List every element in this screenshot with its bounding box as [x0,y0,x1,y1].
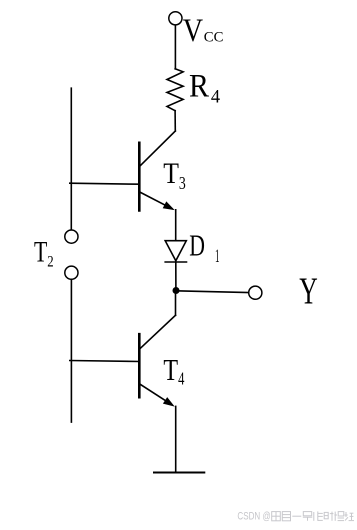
char 一 [292,515,301,517]
T3 base wire [70,183,140,184]
wire resistor to collector bend [174,111,176,131]
transistor T4 bar [138,334,141,397]
svg-text:T: T [163,157,179,190]
Vcc terminal [169,12,182,25]
svg-text:CSDN @: CSDN @ [237,510,270,523]
svg-text:1: 1 [215,246,220,267]
char 摆 [334,512,344,521]
wire T4 collector diagonal [140,315,176,349]
svg-text:CC: CC [204,30,224,46]
char 时 [324,512,333,521]
output terminal circle [249,286,262,299]
wire node down [175,291,177,316]
node junction dot [173,287,180,294]
T2 terminal circle lower [65,266,78,279]
T2 terminal circle upper [65,230,78,243]
T4 emitter [139,384,171,405]
T4 base wire [70,361,140,362]
svg-text:Y: Y [299,271,318,313]
diode D1 [165,241,186,261]
svg-text:T: T [163,352,178,387]
char 号 [303,512,313,521]
wire emitter to diode [175,210,177,241]
resistor R4 [167,69,183,111]
wire node to output terminal [176,291,249,293]
svg-text:2: 2 [47,253,53,270]
T3 emitter arrowhead [163,201,175,210]
svg-text:3: 3 [179,173,186,193]
svg-text:T: T [34,236,47,269]
wire T3 collector diagonal [140,131,176,166]
diode cathode bar [165,261,186,263]
svg-text:D: D [189,227,205,262]
svg-text:R: R [189,69,209,105]
char 月 [282,512,290,521]
char 准 [314,511,323,520]
wire Vcc to resistor [174,26,176,69]
svg-text:V: V [183,13,203,49]
transistor T3 bar [138,143,141,211]
T2 left wire upper [70,88,72,229]
svg-text:4: 4 [178,368,184,388]
svg-text:4: 4 [211,87,221,108]
wire diode to node [175,262,177,291]
T2 left wire lower [70,280,72,422]
ground [154,472,204,474]
watermark CSDN [237,510,354,523]
T3 emitter [140,192,172,209]
char 烂 [345,512,354,521]
wire emitter to ground [175,406,177,472]
T4 emitter arrowhead [163,397,175,407]
char 每 [272,512,281,521]
